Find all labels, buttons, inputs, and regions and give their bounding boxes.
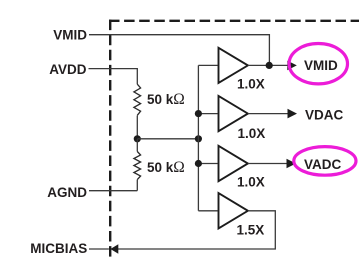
chip boundary dashed border — [109, 20, 359, 258]
node: resistor midpoint — [134, 135, 141, 142]
arrow to VDAC output — [288, 109, 298, 119]
svg-text:VMID: VMID — [304, 58, 338, 73]
node: U2 input junction — [195, 110, 202, 117]
arrow to MICBIAS (left) — [110, 244, 118, 254]
wire stub to U1 input — [198, 64, 217, 66]
svg-text:AGND: AGND — [47, 185, 87, 200]
svg-text:1.0X: 1.0X — [237, 175, 265, 190]
op-amp buffer U3 (1.0X) — [219, 146, 248, 181]
wire stub to U3 input — [198, 163, 217, 165]
svg-text:VDAC: VDAC — [305, 108, 344, 123]
svg-text:VMID: VMID — [53, 27, 87, 42]
op-amp buffer U4 (1.5X) — [219, 193, 248, 228]
wire mid node to bus — [137, 138, 198, 140]
wire AGND to resistor R2 bottom — [89, 190, 137, 192]
svg-text:1.5X: 1.5X — [237, 223, 265, 238]
svg-text:MICBIAS: MICBIAS — [30, 241, 87, 256]
wire U3 output to VADC arrow — [248, 163, 287, 165]
wire stub to U2 input — [198, 113, 217, 115]
node: U1 output junction — [266, 62, 273, 69]
arrow to VADC output — [287, 159, 297, 169]
wire stub to U4 input — [198, 210, 217, 212]
node: U3 input junction — [195, 160, 202, 167]
node: bus mid junction — [195, 135, 202, 142]
svg-text:VADC: VADC — [304, 157, 342, 172]
op-amp buffer U1 (1.0X) — [219, 48, 248, 83]
wire R1 bottom to mid node — [136, 116, 138, 139]
highlight ellipse around VMID — [289, 44, 347, 84]
highlight ellipse around VADC — [294, 147, 356, 176]
wire MICBIAS stub — [89, 248, 109, 250]
op-amp buffer U2 (1.0X) — [219, 96, 248, 131]
svg-text:1.0X: 1.0X — [238, 126, 266, 141]
svg-text:50 kΩ: 50 kΩ — [147, 159, 185, 176]
resistor R2 — [136, 139, 138, 152]
svg-text:50 kΩ: 50 kΩ — [147, 91, 185, 108]
svg-text:AVDD: AVDD — [49, 62, 87, 77]
wire U1 output to VMID arrow — [248, 64, 288, 66]
arrow to VMID output — [287, 61, 297, 71]
wire U4 output loop to MICBIAS — [118, 211, 275, 249]
wire VMID pin to amp U1 output node — [89, 35, 269, 66]
svg-text:1.0X: 1.0X — [237, 77, 265, 92]
bus wire (amp inputs) — [197, 65, 199, 210]
wire AVDD to resistor R1 top — [89, 69, 138, 85]
resistor R1 — [134, 84, 141, 115]
wire U2 output to VDAC arrow — [248, 113, 288, 115]
